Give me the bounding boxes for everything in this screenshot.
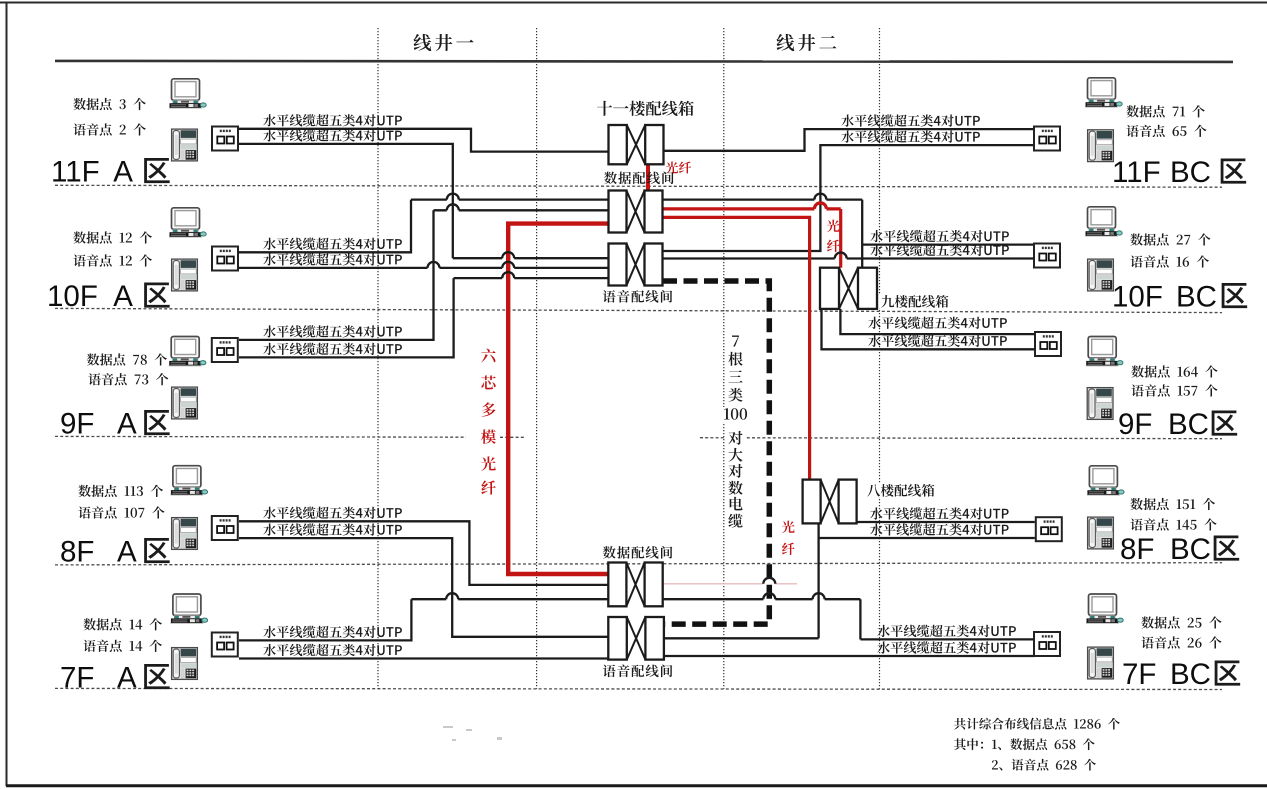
- telephone 8F-BC: [1088, 517, 1114, 549]
- svg-text:BC: BC: [1170, 658, 1211, 691]
- count label d78: [87, 353, 167, 365]
- wire 9F-A voice into voice frame: [454, 277, 609, 279]
- wire 10F-A voice: [239, 267, 609, 269]
- wire 11F-A voice riser: [239, 144, 453, 258]
- count label v107: [78, 506, 164, 518]
- wire 9F-BC data: [840, 309, 1034, 334]
- cable label UTP left 2: [263, 129, 402, 141]
- count label v73: [88, 373, 168, 385]
- cable label UTP right 8: [870, 523, 1009, 535]
- cable label UTP right 10: [877, 641, 1016, 653]
- computer 10F-A: [169, 208, 206, 238]
- floor line 8F: [55, 563, 1222, 565]
- cable label UTP right 4: [870, 244, 1009, 256]
- computer 7F-A: [170, 594, 207, 624]
- count label v12: [73, 254, 152, 266]
- cable label UTP left 3: [263, 238, 402, 250]
- label 八楼配线箱: [865, 484, 937, 497]
- svg-text:BC: BC: [1176, 281, 1217, 314]
- label 语音配线间 bottom: [603, 665, 673, 678]
- page border bottom: [6, 784, 1267, 787]
- computer 11F-BC: [1085, 78, 1122, 108]
- count label d12: [73, 231, 152, 243]
- count label d151: [1130, 498, 1215, 510]
- wire 10F-BC data to socket: [862, 243, 1034, 245]
- svg-text:BC: BC: [1168, 408, 1209, 441]
- floor label 9F BC: [1118, 408, 1237, 441]
- label 光纤 8F riser: [782, 521, 795, 534]
- cable label UTP right 2: [841, 130, 980, 142]
- data distribution frame 7F: [608, 563, 662, 607]
- distribution box 九楼配线箱: [820, 268, 877, 309]
- wall outlet 8F-A: [212, 516, 238, 540]
- wall outlet 8F-BC: [1036, 517, 1062, 541]
- fiber riser 六芯多模光纤: [508, 224, 610, 574]
- cable label UTP right 7: [870, 507, 1009, 519]
- voice distribution frame 10F: [609, 244, 663, 286]
- computer 8F-A: [170, 466, 207, 496]
- cable label UTP right 5: [868, 317, 1007, 329]
- wire 7F-A voice: [239, 657, 609, 659]
- count label v16: [1130, 255, 1209, 267]
- wire 8F-BC data: [857, 521, 1035, 523]
- wire 9F-A voice riser: [239, 278, 454, 357]
- svg-text:A: A: [113, 156, 133, 189]
- telephone 9F-A: [172, 387, 198, 419]
- svg-text:9F: 9F: [60, 408, 94, 441]
- wire 8F-A voice riser: [239, 538, 609, 637]
- svg-text:A: A: [117, 536, 137, 569]
- wire 7F-BC data drop: [860, 599, 1034, 639]
- telephone 9F-BC: [1087, 388, 1113, 420]
- floor label 10F A: [47, 280, 170, 313]
- count label d71: [1126, 105, 1204, 117]
- svg-text:A: A: [117, 408, 137, 441]
- cable shaft line 4: [879, 28, 881, 689]
- fiber to 8F box: [663, 217, 810, 479]
- telephone 10F-BC: [1088, 259, 1114, 291]
- faint removed fiber line 7F: [663, 583, 797, 585]
- cable label UTP left 8: [263, 523, 402, 535]
- computer 9F-A: [169, 337, 206, 367]
- computer 11F-A: [169, 79, 206, 109]
- wire 9F-BC voice: [822, 309, 1035, 349]
- wire 7F-A data into data frame: [411, 598, 608, 600]
- wall outlet 11F-BC: [1034, 127, 1060, 151]
- wire 11F-A voice into voice frame: [453, 257, 609, 259]
- fiber to 9F box: [663, 207, 841, 210]
- floor label 7F A: [60, 662, 170, 695]
- wire 11F-A data: [239, 129, 609, 152]
- voice distribution frame 7F: [608, 617, 664, 660]
- floor line 11F: [55, 185, 1222, 187]
- wire 10F-BC voice: [663, 257, 1034, 259]
- svg-text:11F: 11F: [1112, 156, 1161, 189]
- computer 7F-BC: [1086, 594, 1123, 624]
- svg-text:BC: BC: [1170, 533, 1211, 566]
- count label d3: [73, 98, 145, 110]
- count label v26: [1141, 636, 1221, 648]
- label 光纤 top: [666, 162, 691, 174]
- label 数据配线间 bottom: [603, 546, 673, 559]
- wire 7F voice frame to 8F riser: [664, 637, 819, 639]
- floor line 9F: [55, 436, 1222, 438]
- page border left: [6, 2, 8, 787]
- wire 11F-BC data: [663, 129, 1034, 151]
- wall outlet 9F-A: [212, 338, 238, 362]
- floor label 7F BC: [1122, 658, 1240, 691]
- svg-text:A: A: [113, 280, 133, 313]
- cable shaft line 3: [723, 28, 725, 689]
- wire 10F-A data riser: [239, 200, 411, 253]
- count label d27: [1130, 233, 1210, 245]
- wall outlet 7F-BC: [1034, 632, 1060, 656]
- svg-text:10F: 10F: [1112, 281, 1163, 314]
- label 数据配线间 top: [604, 172, 674, 185]
- floor label 10F BC: [1112, 281, 1247, 314]
- wall outlet 10F-A: [212, 247, 238, 271]
- wire 8F-BC voice riser from 7F voice frame: [817, 523, 819, 638]
- cable label UTP left 9: [263, 626, 402, 638]
- count label v145: [1130, 518, 1216, 530]
- telephone 11F-BC: [1088, 130, 1114, 162]
- cable shaft line 2: [536, 28, 538, 689]
- label 十一楼配线箱: [597, 101, 694, 116]
- floor label 11F A: [51, 156, 170, 189]
- summary line 3: [992, 759, 1096, 771]
- label 线井一: [414, 34, 474, 51]
- cable label UTP left 4: [263, 253, 402, 265]
- count label v157: [1131, 384, 1217, 396]
- data distribution frame 10F: [609, 191, 663, 233]
- telephone 11F-A: [172, 129, 198, 161]
- wire 10F-A data into data frame: [411, 198, 609, 200]
- count label v14: [83, 640, 161, 652]
- computer 10F-BC: [1085, 207, 1122, 237]
- floor label 9F A: [60, 408, 170, 441]
- svg-text:8F: 8F: [60, 536, 94, 569]
- wall outlet 7F-A: [212, 633, 238, 657]
- wire 7F-A data: [239, 599, 411, 640]
- svg-text:9F: 9F: [1118, 408, 1152, 441]
- label 光纤 9F riser: [827, 220, 840, 233]
- fiber link 11F box to data frame: [646, 164, 650, 191]
- telephone 7F-BC: [1088, 647, 1114, 679]
- floor line 7F: [55, 688, 1222, 689]
- cable label UTP left 10: [263, 644, 402, 656]
- svg-text:8F: 8F: [1120, 533, 1154, 566]
- label 九楼配线箱: [879, 295, 949, 308]
- count label d164: [1131, 365, 1217, 377]
- wire 8F-A data: [239, 521, 609, 585]
- wire 9F-A data into data frame: [434, 209, 609, 211]
- count label d14: [83, 618, 162, 630]
- wire 10F-BC data riser to 9F box: [861, 200, 863, 268]
- wire 9F-A data riser: [239, 210, 434, 340]
- count label d113: [78, 485, 163, 497]
- cable label UTP right 9: [877, 625, 1016, 637]
- floor label 8F BC: [1120, 533, 1239, 566]
- wall outlet 9F-BC: [1035, 332, 1061, 356]
- page border top: [0, 2, 1267, 4]
- cable label UTP right 1: [841, 114, 980, 126]
- summary line 1: [954, 718, 1120, 730]
- svg-text:10F: 10F: [47, 280, 98, 313]
- cable label UTP right 3: [870, 230, 1009, 242]
- svg-text:7F: 7F: [1122, 658, 1156, 691]
- cable label UTP left 5: [263, 325, 402, 337]
- svg-text:7F: 7F: [60, 662, 94, 695]
- label 六芯多模光纤: [479, 344, 498, 498]
- floor line 10F: [55, 308, 1222, 312]
- svg-text:BC: BC: [1170, 156, 1211, 189]
- computer 8F-BC: [1087, 466, 1124, 496]
- count label d25: [1141, 616, 1221, 628]
- wire crossing hop arcs: [428, 194, 847, 600]
- label 线井二: [777, 34, 837, 51]
- label 语音配线间 top: [603, 290, 673, 303]
- telephone 8F-A: [172, 518, 198, 550]
- distribution box 十一楼配线箱: [609, 125, 664, 164]
- computer 9F-BC: [1086, 337, 1123, 367]
- telephone 10F-A: [172, 259, 198, 291]
- wire 10F-BC data: [663, 198, 862, 200]
- cable label UTP left 1: [263, 114, 402, 126]
- 100-pair trunk cable dashed: [663, 281, 769, 624]
- wire 7F-BC data: [663, 598, 860, 600]
- cable shaft line 1: [377, 28, 379, 689]
- svg-text:11F: 11F: [51, 156, 100, 189]
- cable label UTP left 6: [263, 343, 402, 355]
- cable label UTP right 6: [868, 335, 1007, 347]
- floor label 11F BC: [1112, 156, 1246, 189]
- wire 7F-BC voice: [664, 655, 1035, 657]
- wall outlet 10F-BC: [1034, 244, 1060, 268]
- count label v2: [73, 123, 145, 135]
- floor label 8F A: [60, 536, 170, 569]
- wall outlet 11F-A: [212, 127, 238, 151]
- label 7根三类100对大对数电缆: [726, 332, 745, 534]
- ceiling line: [55, 61, 1233, 62]
- faint artifact marks: [443, 726, 502, 741]
- summary line 2: [954, 738, 1095, 750]
- cable label UTP left 7: [263, 507, 402, 519]
- wire 11F-BC voice riser: [663, 145, 1034, 251]
- telephone 7F-A: [172, 648, 198, 680]
- count label v65: [1126, 125, 1206, 137]
- distribution box 八楼配线箱: [803, 480, 857, 524]
- wire 8F-BC voice to socket: [819, 537, 1035, 539]
- svg-text:A: A: [117, 662, 137, 695]
